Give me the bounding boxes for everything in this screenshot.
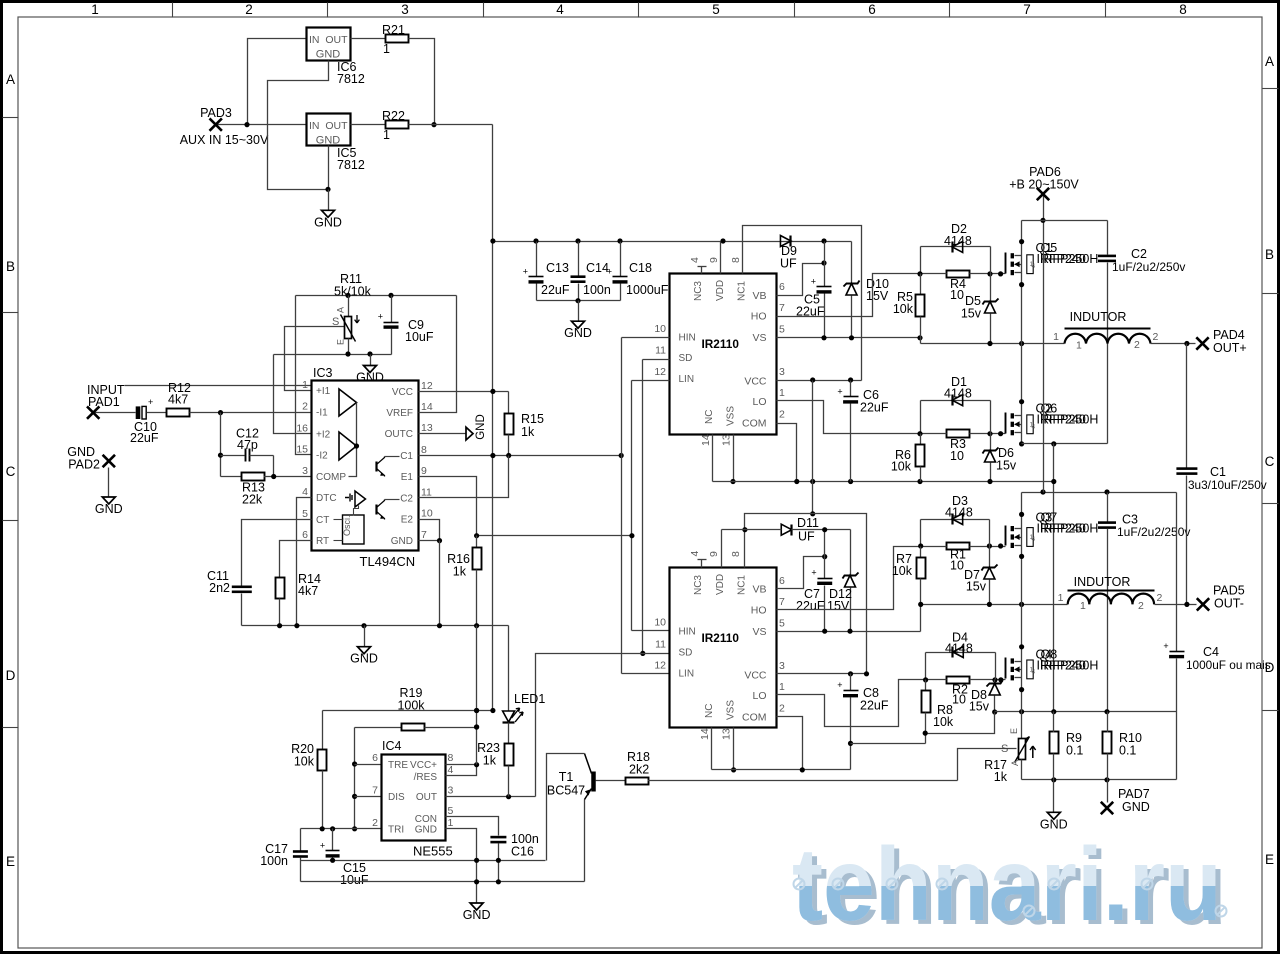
svg-text:VSS: VSS bbox=[725, 406, 736, 426]
node inductor line taps bbox=[987, 341, 992, 346]
svg-text:+B 20~150V: +B 20~150V bbox=[1009, 178, 1079, 192]
wire R8 bottom return bbox=[926, 713, 995, 734]
svg-text:2k2: 2k2 bbox=[629, 763, 649, 777]
pin 14 stub lower bbox=[711, 728, 713, 770]
svg-text:2: 2 bbox=[1157, 592, 1163, 604]
wire OUT pin3 bbox=[446, 796, 536, 798]
pad PAD4 OUT+ bbox=[1196, 337, 1208, 349]
transistor Q7 IRFP240/250 bbox=[1005, 526, 1007, 546]
svg-text:4: 4 bbox=[1032, 668, 1036, 675]
resistor R14 4k7 bbox=[276, 578, 285, 599]
svg-text:14: 14 bbox=[700, 434, 712, 446]
svg-text:-I2: -I2 bbox=[316, 450, 328, 461]
svg-text:2: 2 bbox=[1134, 339, 1140, 351]
wire E1 node line bbox=[477, 535, 633, 537]
svg-text:IRFP250H: IRFP250H bbox=[1040, 252, 1098, 266]
wire DTC pin4 down bbox=[297, 498, 312, 626]
svg-text:10: 10 bbox=[950, 288, 964, 302]
svg-text:TRE: TRE bbox=[388, 760, 408, 771]
node TRE DIS taps bbox=[352, 761, 357, 766]
node drain feed taps bbox=[1040, 489, 1045, 494]
svg-text:C1: C1 bbox=[1210, 465, 1226, 479]
svg-text:VS: VS bbox=[752, 332, 766, 344]
svg-text:15V: 15V bbox=[827, 599, 850, 613]
node R21/R22 output junction bbox=[431, 122, 436, 127]
node ground bar junctions bbox=[277, 623, 282, 628]
wire source bus line bbox=[995, 711, 1177, 713]
node COM bar taps bbox=[794, 479, 799, 484]
node NC1 crosses D11 line bbox=[742, 527, 747, 532]
wire T1 base to R18 bbox=[596, 780, 628, 782]
svg-text:1: 1 bbox=[1058, 592, 1064, 604]
wire IC6 GND loop to ground node bbox=[268, 61, 329, 190]
ground symbol power stage bbox=[1053, 780, 1055, 813]
wire T1 collector to cap ground line bbox=[547, 754, 585, 861]
svg-text:OUTC: OUTC bbox=[385, 429, 413, 440]
svg-text:10k: 10k bbox=[294, 755, 315, 769]
svg-text:C2: C2 bbox=[400, 493, 413, 504]
svg-text:E2: E2 bbox=[401, 515, 414, 526]
svg-text:3: 3 bbox=[779, 660, 785, 672]
wire IC5 OUT to R22 bbox=[125, 385, 351, 387]
wire VS pin5 line lower bbox=[777, 631, 921, 633]
capacitor C1 3u3/10uF bbox=[1186, 344, 1188, 468]
svg-text:PAD3: PAD3 bbox=[200, 106, 232, 120]
svg-text:+: + bbox=[811, 568, 816, 578]
resistor R13 22k bbox=[221, 476, 242, 478]
svg-text:LED1: LED1 bbox=[514, 692, 545, 706]
svg-text:6: 6 bbox=[372, 752, 378, 764]
wire VREF pin14 loop bbox=[419, 296, 457, 413]
wire GND pin1 down bbox=[446, 829, 477, 904]
svg-text:1uF/2u2/250v: 1uF/2u2/250v bbox=[1112, 260, 1185, 274]
node VCC drop joins 12V link line bbox=[810, 511, 815, 516]
wire LO pin1 Z-route to R2 line bbox=[777, 680, 926, 727]
svg-text:IC4: IC4 bbox=[382, 739, 402, 753]
svg-text:11: 11 bbox=[421, 486, 432, 498]
svg-text:10: 10 bbox=[654, 323, 666, 335]
wire GND pin7 bbox=[419, 540, 440, 542]
wire R11 bottom bar bbox=[274, 354, 392, 356]
svg-text:RT: RT bbox=[316, 536, 329, 547]
svg-text:1: 1 bbox=[779, 681, 785, 693]
capacitor C5 22uF bootstrap bbox=[824, 242, 826, 287]
pin 4 stub upper IR2110 bbox=[701, 267, 703, 274]
zener D8 15v bbox=[994, 680, 996, 684]
internal transistor Q2 bbox=[375, 505, 377, 515]
resistor R9 0.1 bbox=[1050, 732, 1059, 754]
svg-text:HIN: HIN bbox=[679, 627, 696, 638]
svg-text:OUT: OUT bbox=[325, 34, 348, 46]
ground symbol below PAD2 bbox=[108, 468, 110, 498]
svg-text:8: 8 bbox=[1179, 2, 1187, 17]
svg-text:22k: 22k bbox=[242, 493, 263, 507]
svg-text:47p: 47p bbox=[237, 438, 258, 452]
led LED1 bbox=[503, 711, 515, 722]
svg-text:A: A bbox=[1265, 54, 1274, 69]
svg-text:10: 10 bbox=[952, 693, 966, 707]
svg-text:UF: UF bbox=[798, 530, 815, 544]
svg-text:+: + bbox=[1163, 641, 1168, 651]
svg-text:GND: GND bbox=[463, 908, 491, 922]
svg-text:1000uF: 1000uF bbox=[626, 283, 669, 297]
svg-text:22uF: 22uF bbox=[130, 431, 159, 445]
svg-text:10: 10 bbox=[421, 508, 433, 520]
wire VCC pin3 line lower bbox=[777, 673, 867, 675]
resistor R23 1k bbox=[505, 744, 514, 766]
svg-text:5k/10k: 5k/10k bbox=[334, 285, 372, 299]
internal oscillator box bbox=[343, 515, 365, 544]
capacitor C10 22uF input coupling bbox=[136, 406, 141, 419]
svg-text:NC3: NC3 bbox=[693, 575, 704, 595]
node OUT+ tap bbox=[1184, 341, 1189, 346]
capacitor C12 47p bbox=[221, 455, 245, 457]
node ground line taps bbox=[1051, 777, 1056, 782]
svg-text:5: 5 bbox=[779, 618, 785, 630]
svg-text:5: 5 bbox=[779, 324, 785, 336]
wire PAD3 to IC5 IN and IC6 IN riser bbox=[216, 124, 307, 126]
svg-text:D: D bbox=[6, 668, 16, 683]
wire SD riser bbox=[642, 360, 644, 654]
wire RES pin4 loop bbox=[446, 765, 477, 776]
wire LED riser from TL494 ground bar bbox=[508, 626, 510, 712]
node R8 bottom bbox=[923, 731, 928, 736]
svg-text:1uF/2u2/250v: 1uF/2u2/250v bbox=[1117, 525, 1190, 539]
svg-text:2: 2 bbox=[302, 400, 308, 412]
wire R4 line to gate bbox=[921, 273, 947, 275]
svg-text:1: 1 bbox=[91, 2, 99, 17]
node supply line taps bbox=[474, 708, 479, 713]
svg-text:5: 5 bbox=[448, 805, 454, 817]
svg-text:CON: CON bbox=[415, 814, 437, 825]
svg-text:14: 14 bbox=[421, 401, 433, 413]
svg-text:16: 16 bbox=[296, 422, 308, 434]
wire Q5 drain/source vertical bbox=[1021, 221, 1023, 344]
svg-text:B: B bbox=[6, 259, 15, 274]
ic IC1 IR2110 upper bbox=[670, 274, 777, 435]
node C9 top bbox=[388, 293, 393, 298]
svg-text:PAD4: PAD4 bbox=[1213, 328, 1245, 342]
diode D4 4148 bbox=[926, 652, 996, 654]
regulator IC5 7812 bbox=[307, 114, 351, 146]
svg-text:NC1: NC1 bbox=[737, 281, 748, 301]
svg-text:3: 3 bbox=[401, 2, 409, 17]
zener D10 15V bbox=[851, 242, 853, 284]
svg-text:SD: SD bbox=[679, 648, 693, 659]
svg-text:9: 9 bbox=[708, 551, 720, 557]
svg-text:PAD7: PAD7 bbox=[1118, 787, 1150, 801]
pin 8 NC1 loop to VCC line bbox=[743, 226, 862, 381]
resistor R15 1k bbox=[508, 392, 510, 414]
wire COM pin2 down to bar bbox=[777, 424, 797, 482]
svg-text:VB: VB bbox=[752, 290, 766, 302]
wire VCC pin3 line bbox=[777, 380, 862, 382]
node R11 bottom bbox=[345, 351, 350, 356]
pin 9 VDD wire to bus bbox=[720, 242, 722, 274]
capacitor C18 bbox=[620, 242, 622, 277]
node OUT- tap bbox=[1184, 602, 1189, 607]
svg-text:2: 2 bbox=[779, 409, 785, 421]
svg-text:12: 12 bbox=[421, 380, 433, 392]
svg-text:VSS: VSS bbox=[725, 700, 736, 720]
node Q8 drain bbox=[1019, 644, 1024, 649]
svg-text:7: 7 bbox=[779, 302, 785, 314]
resistor R10 0.1 bbox=[1103, 732, 1112, 754]
svg-text:DTC: DTC bbox=[316, 493, 337, 504]
svg-text:BC547: BC547 bbox=[547, 784, 585, 798]
svg-text:GND: GND bbox=[95, 502, 123, 516]
svg-text:1: 1 bbox=[779, 387, 785, 399]
svg-text:+: + bbox=[607, 266, 612, 276]
wire COM pin2 down lower bbox=[777, 717, 803, 770]
node R1 ends bbox=[918, 543, 923, 548]
wire L1 to PAD4 bbox=[1151, 343, 1196, 345]
capacitor C14 bbox=[578, 242, 580, 277]
wire 12V bus bbox=[493, 241, 852, 243]
resistor R18 2k2 bbox=[626, 778, 649, 785]
wire LO pin1 jog to R3 line bbox=[777, 401, 921, 434]
svg-text:1: 1 bbox=[383, 128, 390, 142]
svg-text:+: + bbox=[523, 266, 528, 276]
wire lower COM bar bbox=[712, 769, 851, 771]
node C8 bottom bbox=[848, 741, 853, 746]
node Q6 source bbox=[1019, 441, 1024, 446]
wire R12 to -I1 node bbox=[190, 412, 312, 414]
wire R9 top lead bbox=[1053, 712, 1055, 733]
resistor R7 10k bbox=[920, 547, 922, 558]
wire top drain link bbox=[1022, 220, 1108, 222]
svg-text:C13: C13 bbox=[546, 261, 569, 275]
wire GND pin down to ground bar bbox=[439, 541, 441, 626]
zener D7 15v bbox=[982, 565, 998, 571]
wire NE555 output riser to SD line bbox=[536, 654, 670, 797]
node Q5 drain bbox=[1019, 239, 1024, 244]
trimmer R11 5k/10k bbox=[348, 296, 350, 317]
transistor Q6 IRFP240/250 bbox=[1005, 413, 1007, 434]
wire COM bar up to C8 bottom bbox=[850, 744, 852, 770]
node riser taps bbox=[474, 708, 479, 713]
svg-text:VDD: VDD bbox=[715, 280, 726, 301]
wire D3 right leg through D7 bbox=[989, 520, 991, 568]
zener D6 15v bbox=[983, 448, 999, 454]
svg-text:1: 1 bbox=[1080, 600, 1086, 612]
pad PAD1 input bbox=[87, 406, 99, 418]
resistor R6 10k bbox=[920, 434, 922, 445]
svg-text:11: 11 bbox=[655, 345, 666, 357]
wire CT pin5 to C11 bbox=[242, 520, 312, 586]
ground symbol OUTC sideways bbox=[466, 427, 473, 440]
svg-text:4148: 4148 bbox=[944, 234, 972, 248]
wire C10 to R12 bbox=[147, 412, 167, 414]
svg-text:10: 10 bbox=[950, 449, 964, 463]
svg-text:IR2110: IR2110 bbox=[702, 631, 740, 645]
wire TRI line bbox=[301, 828, 382, 830]
node Q6 source line taps bbox=[1051, 441, 1056, 446]
node sense column joins COM bar bbox=[1051, 479, 1056, 484]
svg-text:5: 5 bbox=[712, 2, 720, 17]
node SD junction lower bbox=[640, 651, 645, 656]
wire LED to R23 bbox=[508, 723, 510, 744]
capacitor C16 100n bbox=[490, 836, 506, 839]
wire input line bbox=[94, 412, 136, 414]
wire DIS pin7 bbox=[355, 796, 382, 798]
svg-text:3: 3 bbox=[779, 366, 785, 378]
wire HO pin7 riser lower bbox=[777, 547, 921, 610]
node VB/C7 bbox=[822, 554, 827, 559]
svg-text:1k: 1k bbox=[453, 565, 467, 579]
svg-text:A: A bbox=[6, 72, 15, 87]
svg-text:11: 11 bbox=[655, 639, 666, 651]
svg-text:VCC+: VCC+ bbox=[410, 760, 437, 771]
resistor R3 10 gate bbox=[947, 430, 970, 438]
wire R18 to trimmer wiper riser bbox=[648, 780, 958, 782]
ground symbol below IC5 bbox=[328, 190, 330, 211]
wire PB rail from PAD6 bbox=[1043, 195, 1045, 493]
resistor R5 10k bbox=[920, 274, 922, 295]
svg-text:+: + bbox=[148, 397, 153, 407]
svg-text:+I1: +I1 bbox=[316, 386, 331, 397]
node input to pin2 bbox=[218, 410, 223, 415]
svg-text:8: 8 bbox=[730, 551, 742, 557]
svg-text:LO: LO bbox=[752, 690, 766, 702]
wire upper COM/gate-return bar bbox=[713, 481, 1054, 483]
svg-text:+: + bbox=[378, 312, 383, 322]
node R11 top bbox=[345, 293, 350, 298]
svg-text:0.1: 0.1 bbox=[1066, 744, 1083, 758]
wire E2 pin10 to GND pin bbox=[419, 520, 440, 541]
svg-text:22uF: 22uF bbox=[860, 401, 889, 415]
node VCC taps bbox=[810, 377, 815, 382]
wire R2 line to gate bbox=[926, 679, 947, 681]
ic IC2 IR2110 lower bbox=[670, 568, 777, 728]
svg-text:OUT+: OUT+ bbox=[1213, 341, 1247, 355]
internal transistor Q1 bbox=[375, 462, 377, 472]
pad PAD2 ground bbox=[103, 455, 115, 467]
svg-text:4148: 4148 bbox=[945, 506, 973, 520]
svg-text:7: 7 bbox=[1023, 2, 1031, 17]
pad PAD7 ground bbox=[1107, 780, 1109, 803]
wire Q6 drain/source vertical bbox=[1021, 344, 1023, 444]
svg-text:INDUTOR: INDUTOR bbox=[1070, 310, 1127, 324]
svg-text:VCC: VCC bbox=[744, 670, 767, 682]
wire R19 supply line bbox=[323, 710, 493, 712]
wire ground return line bbox=[1022, 779, 1177, 781]
node Q5 source bbox=[1019, 282, 1024, 287]
svg-text:5: 5 bbox=[302, 508, 308, 520]
node R3 ends bbox=[917, 431, 922, 436]
ic IC4 NE555 bbox=[382, 755, 446, 841]
svg-text:10k: 10k bbox=[891, 460, 912, 474]
svg-text:1k: 1k bbox=[483, 754, 497, 768]
wire R13 to COMP bbox=[264, 476, 312, 478]
svg-text:22uF: 22uF bbox=[796, 599, 825, 613]
internal comp output wire bbox=[349, 403, 357, 477]
svg-text:3: 3 bbox=[448, 785, 454, 797]
svg-text:+: + bbox=[837, 386, 842, 396]
svg-text:E: E bbox=[1265, 852, 1274, 867]
wire Q8 vertical bbox=[1021, 605, 1023, 712]
svg-text:8: 8 bbox=[448, 752, 454, 764]
wire C1/C2 riser to HIN upper and LIN lower bbox=[621, 338, 623, 674]
op-amp 1 inside TL494 bbox=[339, 389, 357, 416]
svg-text:GND: GND bbox=[391, 536, 413, 547]
svg-text:4: 4 bbox=[448, 764, 454, 776]
wire VS jog to inductor line bbox=[920, 338, 922, 344]
svg-text:9: 9 bbox=[708, 257, 720, 263]
ic IC3 TL494CN bbox=[312, 381, 419, 551]
capacitor C3 1uF/2u2/250v bbox=[1107, 493, 1109, 522]
svg-text:+I2: +I2 bbox=[316, 429, 331, 440]
pin 8 NC1 riser to 12V link bbox=[745, 514, 867, 674]
svg-text:E: E bbox=[6, 854, 15, 869]
wire R3 line to gate bbox=[921, 433, 947, 435]
svg-text:GND: GND bbox=[475, 414, 487, 440]
svg-text:12: 12 bbox=[654, 366, 666, 378]
svg-text:4: 4 bbox=[1032, 263, 1036, 270]
svg-text:HO: HO bbox=[751, 311, 767, 323]
svg-text:9: 9 bbox=[421, 465, 427, 477]
svg-text:E: E bbox=[336, 339, 346, 345]
node cap ground taps bbox=[330, 858, 335, 863]
svg-text:13: 13 bbox=[721, 728, 733, 740]
node bus taps bbox=[490, 238, 495, 243]
node C12 left bbox=[218, 453, 223, 458]
diode D9 UF bootstrap bbox=[780, 236, 791, 247]
svg-text:0.1: 0.1 bbox=[1119, 744, 1136, 758]
svg-text:R15: R15 bbox=[521, 412, 544, 426]
capacitor C8 22uF bbox=[850, 674, 852, 691]
svg-text:UF: UF bbox=[780, 257, 797, 271]
resistor R12 bbox=[167, 409, 190, 417]
wire R11 wiper to +I1 bbox=[285, 327, 345, 391]
capacitor C4 1000uF bbox=[1176, 493, 1178, 652]
node COM bar taps lower bbox=[800, 767, 805, 772]
wire D3 left leg bbox=[920, 520, 922, 547]
diode D2 4148 bbox=[921, 246, 991, 248]
pin 14 stub to COM bar bbox=[712, 435, 714, 482]
svg-text:14: 14 bbox=[699, 728, 711, 740]
wire inductor-1 input line bbox=[921, 343, 1065, 345]
node GND pin junction bbox=[437, 538, 442, 543]
svg-text:1000uF ou mais: 1000uF ou mais bbox=[1186, 658, 1271, 672]
wire riser R16 column to pin8 bbox=[476, 626, 478, 765]
svg-text:NC1: NC1 bbox=[737, 575, 748, 595]
wire IC6 OUT to R21 bbox=[351, 38, 386, 40]
svg-text:1k: 1k bbox=[521, 425, 535, 439]
svg-text:C18: C18 bbox=[629, 261, 652, 275]
wire RT pin6 to R14 bbox=[280, 541, 312, 578]
capacitor C6 22uF bbox=[850, 381, 852, 397]
svg-text:GND: GND bbox=[415, 825, 437, 836]
svg-text:100k: 100k bbox=[397, 699, 425, 713]
ground symbol R11/C9 bbox=[370, 355, 372, 366]
wire VB loop bbox=[777, 264, 825, 296]
svg-text:22uF: 22uF bbox=[860, 699, 889, 713]
svg-text:IN: IN bbox=[309, 120, 320, 132]
svg-text:SD: SD bbox=[679, 353, 693, 364]
svg-text:-I1: -I1 bbox=[316, 407, 328, 418]
svg-text:2: 2 bbox=[245, 2, 253, 17]
transistor Q8 IRFP240/250 bbox=[1005, 658, 1007, 679]
svg-text:15v: 15v bbox=[966, 580, 987, 594]
svg-text:C1: C1 bbox=[400, 451, 413, 462]
node R19 right bbox=[474, 724, 479, 729]
svg-text:E1: E1 bbox=[401, 472, 414, 483]
node ground junction under IC5 bbox=[325, 187, 330, 192]
svg-text:8: 8 bbox=[730, 257, 742, 263]
svg-text:10: 10 bbox=[654, 617, 666, 629]
wire D1 left leg bbox=[920, 401, 922, 434]
